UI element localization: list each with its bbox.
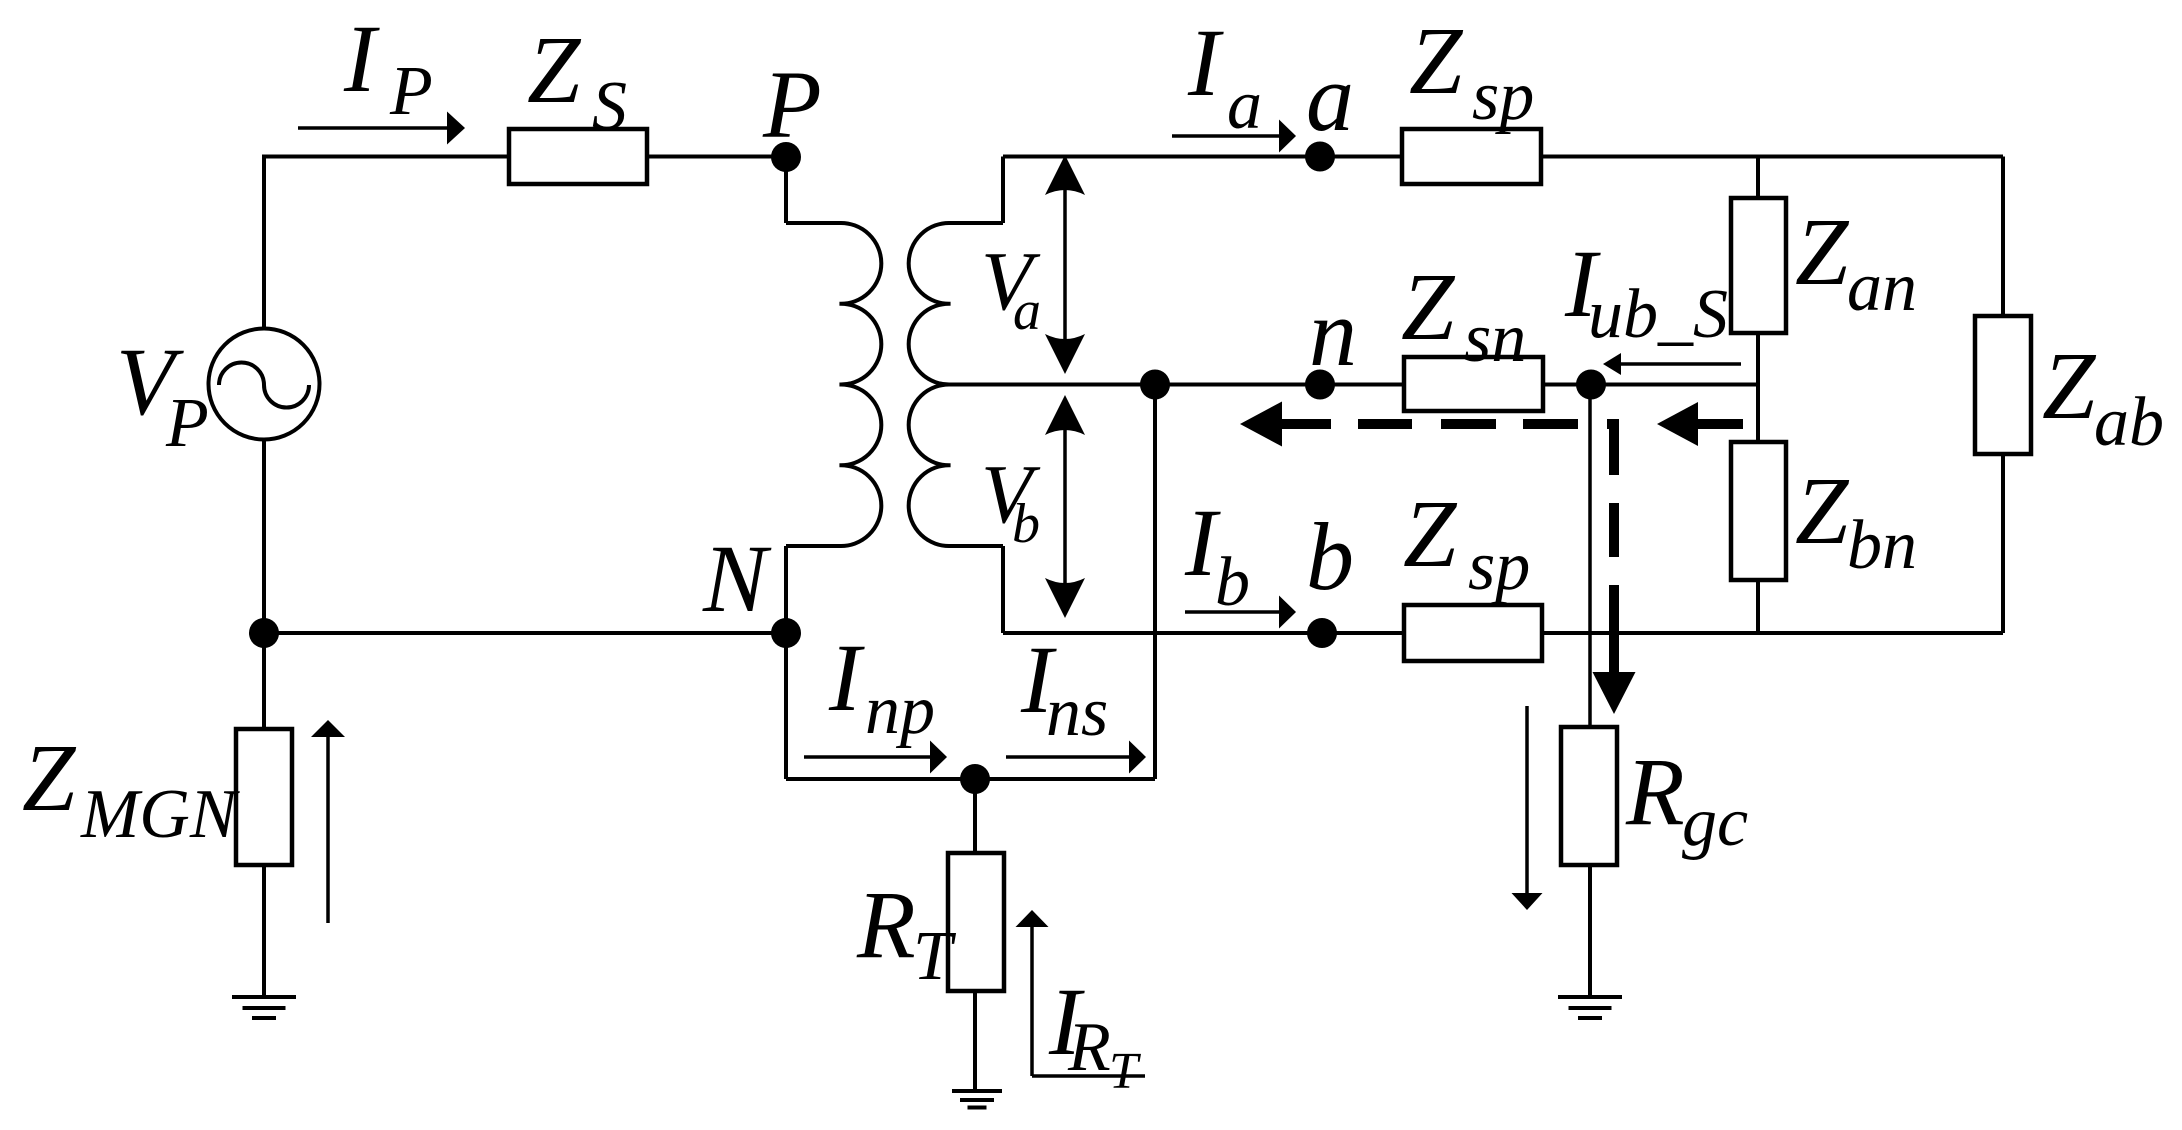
svg-text:T: T (1109, 1043, 1141, 1100)
svg-text:Z: Z (527, 16, 582, 123)
svg-text:Z: Z (1795, 457, 1850, 564)
svg-text:sp: sp (1468, 528, 1530, 605)
svg-text:sp: sp (1472, 58, 1534, 135)
svg-text:a: a (1013, 280, 1041, 342)
svg-text:sn: sn (1464, 300, 1526, 377)
svg-text:Z: Z (1401, 253, 1456, 360)
svg-text:I: I (343, 5, 380, 112)
svg-text:np: np (865, 672, 935, 749)
svg-text:R: R (1067, 1009, 1111, 1086)
svg-text:gc: gc (1682, 784, 1748, 861)
svg-text:an: an (1847, 249, 1917, 326)
svg-text:N: N (702, 525, 772, 632)
svg-text:R: R (1625, 738, 1685, 845)
svg-text:R: R (856, 871, 916, 978)
svg-text:Z: Z (2042, 332, 2097, 439)
svg-text:Z: Z (1409, 7, 1464, 114)
svg-text:T: T (913, 918, 957, 995)
svg-text:Z: Z (1795, 198, 1850, 305)
svg-text:b: b (1012, 493, 1040, 555)
svg-text:P: P (762, 51, 822, 158)
svg-text:I: I (1187, 9, 1224, 116)
svg-text:ns: ns (1046, 674, 1108, 751)
svg-text:bn: bn (1847, 507, 1917, 584)
svg-text:b: b (1306, 503, 1354, 610)
svg-text:Z: Z (22, 724, 77, 831)
svg-text:a: a (1306, 44, 1354, 151)
svg-text:MGN: MGN (80, 776, 240, 853)
svg-text:ab: ab (2094, 384, 2164, 461)
svg-text:I: I (828, 624, 865, 731)
svg-text:a: a (1227, 67, 1262, 144)
svg-text:P: P (165, 385, 209, 462)
svg-text:b: b (1215, 544, 1250, 621)
svg-text:Z: Z (1403, 480, 1458, 587)
svg-text:n: n (1309, 279, 1357, 386)
svg-text:S: S (592, 68, 627, 145)
svg-text:P: P (389, 53, 433, 130)
svg-text:ub_S: ub_S (1588, 276, 1728, 353)
